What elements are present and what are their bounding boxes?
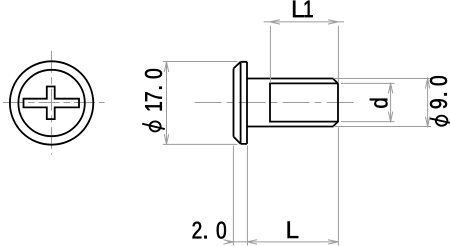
dim L1: text bbox=[293, 1, 313, 18]
dim phi9: arrows bbox=[425, 79, 429, 127]
barrel body with chamfered end bbox=[247, 79, 338, 127]
dim 2.0: extension lines bbox=[232, 146, 234, 246]
outer circle (head dia 17) bbox=[10, 61, 93, 144]
dim L1: extension lines bbox=[269, 26, 271, 83]
dim 2.0: text bbox=[193, 222, 226, 239]
dim L: arrows bbox=[247, 240, 338, 244]
dim L1: dimension line bbox=[264, 21, 344, 23]
dim 2.0: leader line with arrow bbox=[227, 241, 247, 243]
dim L1: arrows bbox=[270, 20, 338, 24]
dim phi9: diameter symbol bbox=[436, 116, 448, 126]
dim d: arrows bbox=[388, 83, 392, 121]
side view centerline bbox=[195, 102, 355, 104]
dim phi9: extension lines bbox=[334, 78, 432, 80]
dim d: text bbox=[370, 99, 388, 108]
dim phi17: diameter symbol bbox=[150, 121, 161, 131]
dim L: dimension line bbox=[247, 241, 338, 243]
dim phi17: text 17.0 rotated bbox=[145, 69, 162, 110]
front view vertical centerline bbox=[51, 51, 53, 155]
phillips cross recess bbox=[24, 87, 80, 120]
dim phi9: dimension line bbox=[427, 78, 429, 128]
dim L: text bbox=[288, 222, 299, 239]
dim L: extension line (right) bbox=[337, 127, 339, 245]
front view horizontal centerline bbox=[3, 102, 105, 104]
inner bore rectangle bbox=[270, 83, 338, 121]
dim phi9: text 9.0 rotated bbox=[430, 76, 447, 108]
dim phi17: arrows bbox=[164, 62, 168, 145]
dim phi17: dimension line bbox=[166, 61, 168, 145]
dim d: dimension line bbox=[390, 83, 392, 123]
dim phi17: extension lines bbox=[163, 61, 238, 63]
head outline (side view) bbox=[234, 62, 248, 144]
dim d: extension lines bbox=[341, 82, 395, 84]
inner circle (flange face) bbox=[18, 70, 84, 136]
